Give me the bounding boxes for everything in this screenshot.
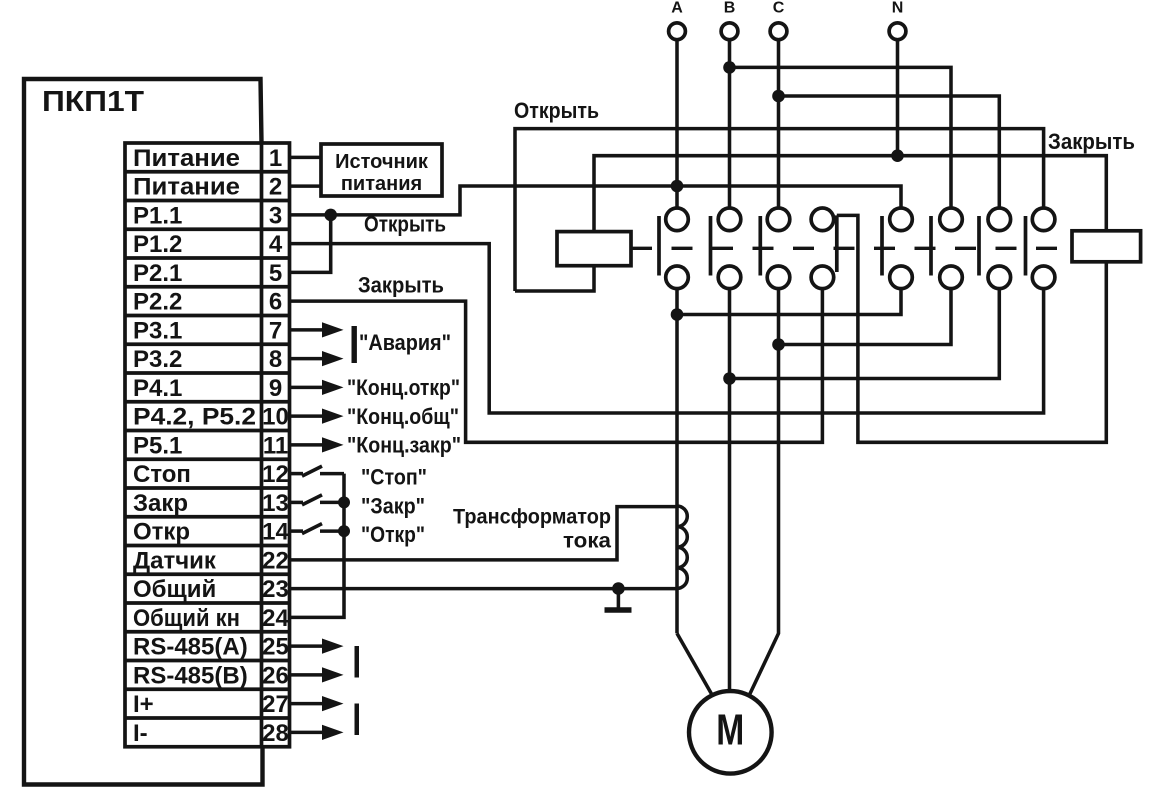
wire coil supply line K1 top to K2 top (neutral) — [594, 156, 1106, 232]
svg-text:"Конц.закр": "Конц.закр" — [347, 433, 461, 458]
contact K2.2 — [931, 208, 962, 289]
wire phase A vertical — [675, 40, 679, 208]
svg-text:Р5.1: Р5.1 — [133, 433, 182, 460]
power source box Источник питания — [321, 144, 442, 196]
svg-text:7: 7 — [269, 318, 282, 345]
contact K2.3 — [979, 208, 1011, 289]
node phase B tap — [723, 61, 736, 74]
svg-text:Закрыть: Закрыть — [358, 273, 444, 298]
arrow pin 27 — [290, 702, 325, 706]
arrow pin 26 — [290, 673, 325, 677]
wire K1.2 bottom to K2.3 bottom — [730, 289, 1000, 379]
node K1.1 bottom junction — [671, 308, 684, 321]
svg-text:Р4.2, Р5.2: Р4.2, Р5.2 — [133, 404, 256, 431]
svg-text:10: 10 — [262, 404, 289, 431]
wire motor phase A (contact K1.1 bottom down) — [675, 289, 679, 634]
svg-text:11: 11 — [263, 433, 288, 460]
wire pin 1 to power source — [290, 156, 322, 160]
contact K1.4 aux — [811, 208, 837, 289]
svg-text:25: 25 — [262, 634, 289, 661]
mechanical linkage dashed line — [631, 247, 1072, 250]
contactor coil K2 — [1072, 231, 1141, 262]
svg-text:6: 6 — [269, 289, 282, 316]
wire pin 4 to contact K2.4 bottom — [290, 244, 1044, 413]
svg-text:Питание: Питание — [133, 145, 240, 172]
current transformer winding — [677, 506, 687, 588]
wire phase N vertical — [896, 40, 900, 156]
svg-text:С: С — [773, 0, 785, 17]
contact K2.1 — [882, 208, 912, 289]
wire Открыть line to contact K2.4 top — [515, 129, 1044, 291]
svg-text:13: 13 — [262, 490, 289, 517]
svg-text:Р3.1: Р3.1 — [133, 318, 182, 345]
svg-text:RS-485(В): RS-485(В) — [133, 663, 248, 690]
switch button Закр (pin 13) — [290, 501, 304, 505]
svg-text:М: М — [716, 706, 744, 755]
svg-text:"Откр": "Откр" — [361, 522, 425, 547]
wire motor phase C (contact K1.3 bottom down) — [750, 289, 779, 694]
svg-text:питания: питания — [341, 173, 422, 195]
arrow pin 25 — [290, 644, 325, 648]
svg-text:Р2.2: Р2.2 — [133, 289, 182, 316]
device box ПКП1Т (outer enclosure) — [24, 79, 263, 785]
svg-text:N: N — [892, 0, 904, 17]
wire pin 5 branch — [290, 215, 331, 273]
svg-text:В: В — [724, 0, 736, 17]
svg-text:Р1.1: Р1.1 — [133, 203, 182, 230]
wire phase C to contact K2.3 top — [779, 96, 1000, 208]
svg-text:Р4.1: Р4.1 — [133, 375, 182, 402]
wire coil K1 bottom link — [515, 266, 594, 291]
ground symbol — [617, 589, 621, 609]
wire K1.1 bottom to K2.1 bottom — [677, 289, 901, 315]
svg-text:27: 27 — [262, 691, 289, 718]
svg-text:5: 5 — [269, 260, 282, 287]
svg-text:Открыть: Открыть — [364, 212, 446, 237]
svg-text:14: 14 — [262, 519, 289, 546]
svg-text:"Авария": "Авария" — [359, 330, 451, 355]
contactor coil K1 — [557, 232, 631, 266]
svg-text:А: А — [671, 0, 683, 17]
arrow pin 28 — [290, 731, 325, 735]
node K1.3 bottom junction — [772, 338, 785, 351]
svg-text:"Конц.общ": "Конц.общ" — [347, 404, 459, 429]
wire phase B to contact K2.2 top — [730, 67, 952, 208]
arrow pin 11 — [290, 443, 325, 447]
terminal table grid — [125, 143, 290, 747]
bracket bar RS-485 — [355, 646, 360, 678]
node switch Откр junction — [338, 525, 350, 537]
node junction pin3/pin5 — [324, 209, 337, 222]
contact K1.1 — [659, 208, 688, 289]
contact K1.3 — [760, 208, 790, 289]
svg-text:26: 26 — [262, 663, 289, 690]
svg-text:22: 22 — [262, 548, 289, 575]
svg-text:8: 8 — [269, 346, 282, 373]
arrow pin 8 (Р3.2) — [290, 357, 325, 361]
svg-text:9: 9 — [269, 375, 282, 402]
svg-text:Р3.2: Р3.2 — [133, 346, 182, 373]
bracket bar Авария — [352, 326, 357, 363]
svg-text:Откр: Откр — [133, 519, 190, 546]
contact K1.2 — [711, 208, 741, 289]
svg-text:24: 24 — [262, 605, 289, 632]
bracket bar I+/I- — [355, 704, 360, 736]
wire pin 22 Датчик to current transformer — [290, 507, 678, 560]
node phase A / pin3 line — [671, 180, 684, 193]
arrow pin 9 — [290, 386, 325, 390]
svg-text:4: 4 — [269, 231, 283, 258]
motor M — [689, 691, 772, 774]
switch button Откр (pin 14) — [290, 529, 304, 533]
wire phase A below transformer to motor — [677, 633, 712, 694]
switch button Стоп (pin 12) — [290, 472, 304, 476]
svg-text:23: 23 — [262, 576, 289, 603]
svg-text:Общий: Общий — [133, 576, 216, 603]
contact K2.4 aux — [1026, 208, 1055, 289]
arrow pin 7 (Р3.1) — [290, 328, 325, 332]
svg-text:тока: тока — [563, 530, 611, 553]
node phase C tap — [772, 90, 785, 103]
svg-text:Р1.2: Р1.2 — [133, 231, 182, 258]
svg-text:Датчик: Датчик — [133, 548, 217, 575]
svg-text:Открыть: Открыть — [514, 98, 599, 123]
node phase N tap on coil line — [891, 149, 904, 162]
wire pin 6 to contact K1.4 bottom — [290, 289, 823, 443]
svg-text:Общий кн: Общий кн — [133, 605, 240, 632]
svg-text:Р2.1: Р2.1 — [133, 260, 182, 287]
node switch Закр junction — [338, 496, 350, 508]
wire phase C vertical — [777, 40, 781, 208]
svg-text:2: 2 — [269, 174, 282, 201]
svg-text:ПКП1Т: ПКП1Т — [42, 86, 144, 118]
node ground junction — [612, 582, 625, 595]
arrow pin 10 — [290, 414, 325, 418]
svg-text:I+: I+ — [133, 691, 154, 718]
wire pin 3 net: to contact K2.1 top, joins phase A — [290, 186, 902, 215]
svg-text:I-: I- — [133, 720, 148, 747]
wire phase B vertical — [728, 40, 732, 208]
svg-text:Закр: Закр — [133, 490, 188, 517]
svg-text:28: 28 — [262, 720, 289, 747]
svg-text:1: 1 — [269, 145, 282, 172]
svg-text:RS-485(А): RS-485(А) — [133, 634, 248, 661]
wire switch common to pin 24 — [290, 474, 345, 618]
svg-text:"Стоп": "Стоп" — [361, 465, 427, 490]
wire pin 23 Общий to motor phase A — [290, 587, 678, 591]
wire pin 2 to power source — [290, 184, 322, 188]
node K1.2 bottom junction — [723, 372, 736, 385]
svg-text:Источник: Источник — [335, 151, 429, 173]
wire contact K1.4 bar to coil K2 bottom (Закрыть chain) — [837, 215, 1107, 442]
svg-text:Закрыть: Закрыть — [1048, 129, 1135, 154]
wire motor phase B (contact K1.2 bottom down) — [728, 289, 732, 690]
svg-text:3: 3 — [269, 203, 282, 230]
wire K1.3 bottom to K2.2 bottom — [779, 289, 952, 345]
svg-text:"Конц.откр": "Конц.откр" — [347, 375, 460, 400]
svg-text:Трансформатор: Трансформатор — [453, 506, 611, 529]
svg-text:"Закр": "Закр" — [361, 493, 425, 518]
svg-text:12: 12 — [262, 461, 289, 488]
svg-text:Стоп: Стоп — [133, 461, 191, 488]
svg-text:Питание: Питание — [133, 174, 240, 201]
